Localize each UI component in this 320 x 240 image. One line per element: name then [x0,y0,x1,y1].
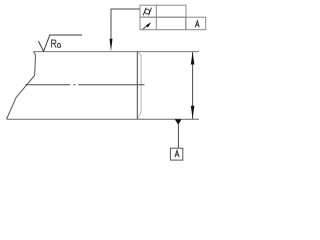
datum reference cell A [186,17,206,30]
bottom extension line [137,118,199,120]
feature control frame row 1 (cylindricity) box [140,5,186,17]
leader arrowhead [110,39,113,52]
row 1 cell divider [155,5,157,17]
datum stem [177,124,179,149]
circular runout symbol (arrow) [143,22,151,29]
bottom dimension arrowhead [191,106,195,119]
chamfer edge (vertical line at chamfer start) [136,52,138,120]
datum box [170,148,182,160]
roughness label Ra [52,40,61,48]
surface roughness symbol (check mark with bar) [38,35,82,51]
datum letter A in frame [195,21,199,27]
dimension line (diameter) [192,52,194,119]
shaft bottom edge [7,118,138,120]
datum letter A [175,151,179,158]
feature control frame row 2 (circular runout) box [140,17,186,30]
row 2 cell divider [155,17,157,30]
datum feature triangle (filled) [175,119,182,125]
end face of shaft with chamfer corners [138,52,141,119]
top extension line [137,51,199,53]
leader line from feature control frame [111,9,140,40]
top dimension arrowhead [191,52,195,65]
cylindricity symbol [143,8,151,16]
break line (left freehand edge of shaft) [7,52,36,119]
shaft top edge [33,51,137,53]
centerline (dash-dot axis) [25,84,144,86]
